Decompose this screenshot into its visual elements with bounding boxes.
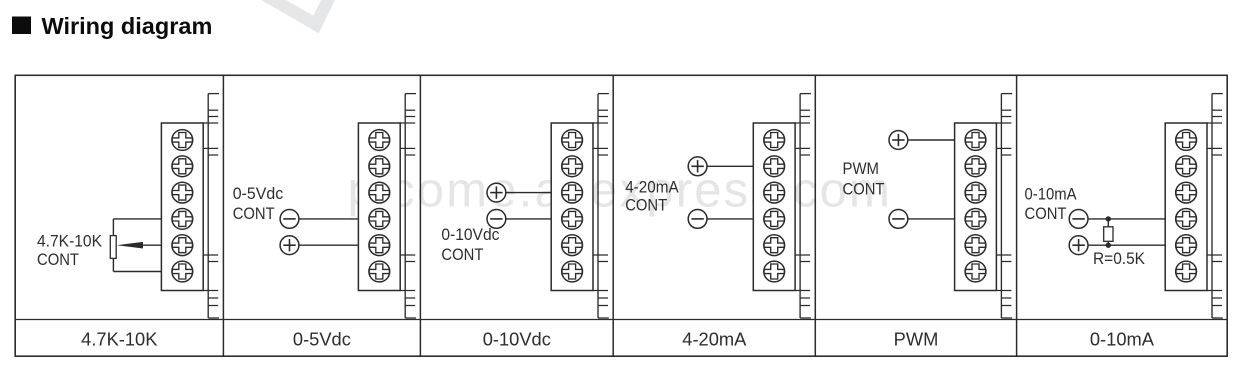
svg-text:0-10Vdc: 0-10Vdc bbox=[441, 225, 499, 244]
screw terminal 3 of block 3 bbox=[562, 182, 583, 203]
input terminal minus (panel 3) bbox=[487, 210, 506, 229]
screw terminal 5 of block 5 bbox=[965, 235, 986, 256]
screw terminal 4 of block 5 bbox=[965, 209, 986, 230]
device side profile 4 (mounting face with fins) bbox=[795, 94, 811, 318]
screw terminal 3 of block 6 bbox=[1176, 182, 1197, 203]
wire: plus to screw 2 bbox=[707, 165, 754, 167]
svg-text:4-20mA: 4-20mA bbox=[682, 329, 747, 350]
screw terminal 5 of block 6 bbox=[1176, 235, 1197, 256]
terminal block 3: 6-screw connector body bbox=[551, 123, 593, 291]
screw terminal 1 of block 6 bbox=[1176, 130, 1197, 151]
terminal block 1: 6-screw connector body bbox=[161, 123, 203, 291]
input terminal plus (panel 2) bbox=[280, 236, 299, 255]
input terminal minus (panel 4) bbox=[688, 210, 707, 229]
screw terminal 4 of block 6 bbox=[1176, 209, 1197, 230]
svg-text:PWM: PWM bbox=[894, 329, 939, 350]
title bullet square bbox=[12, 17, 31, 35]
screw terminal 2 of block 5 bbox=[965, 156, 986, 177]
potentiometer VR1 body 4.7K-10K bbox=[110, 236, 116, 259]
input terminal minus (panel 6) bbox=[1069, 210, 1088, 229]
svg-text:Wiring diagram: Wiring diagram bbox=[42, 13, 213, 39]
wire: wiper to screw 5 bbox=[142, 244, 161, 246]
device side profile 2 (mounting face with fins) bbox=[400, 94, 416, 318]
wire: pot bottom to screw 6 bbox=[113, 271, 161, 273]
svg-text:0-10Vdc: 0-10Vdc bbox=[483, 329, 551, 350]
svg-text:R=0.5K: R=0.5K bbox=[1093, 249, 1146, 268]
screw terminal 4 of block 4 bbox=[764, 209, 785, 230]
wire: plus to screw 1 bbox=[907, 139, 954, 141]
screw terminal 1 of block 4 bbox=[764, 130, 785, 151]
input terminal plus (panel 5) bbox=[889, 131, 908, 150]
wire: pot bottom lead bbox=[112, 258, 114, 271]
terminal block 4: 6-screw connector body bbox=[753, 123, 795, 291]
svg-text:4-20mA: 4-20mA bbox=[625, 177, 679, 196]
svg-text:CONT: CONT bbox=[843, 180, 885, 199]
potentiometer wiper arrow bbox=[117, 242, 143, 249]
screw terminal 6 of block 6 bbox=[1176, 261, 1197, 282]
screw terminal 6 of block 2 bbox=[369, 261, 390, 282]
wire: plus to screw 5 bbox=[299, 244, 359, 246]
screw terminal 2 of block 4 bbox=[764, 156, 785, 177]
resistor R=0.5K body bbox=[1104, 227, 1113, 242]
svg-text:0-5Vdc: 0-5Vdc bbox=[233, 184, 284, 203]
column divider 1 bbox=[222, 75, 224, 356]
input terminal plus (panel 3) bbox=[487, 183, 506, 202]
device side profile 3 (mounting face with fins) bbox=[593, 94, 609, 318]
svg-text:CONT: CONT bbox=[1025, 204, 1067, 223]
wire: minus to screw 4 bbox=[1088, 218, 1166, 220]
screw terminal 5 of block 1 bbox=[172, 235, 193, 256]
wire: pot top to screw 4 bbox=[113, 218, 161, 220]
screw terminal 2 of block 2 bbox=[369, 156, 390, 177]
input terminal plus (panel 6) bbox=[1069, 236, 1088, 255]
screw terminal 4 of block 3 bbox=[562, 209, 583, 230]
wire: plus to screw 3 bbox=[505, 192, 551, 194]
wire: minus to screw 4 bbox=[707, 218, 754, 220]
column divider 3 bbox=[612, 75, 614, 356]
screw terminal 6 of block 4 bbox=[764, 261, 785, 282]
table outer border bbox=[15, 75, 1227, 356]
svg-text:0-10mA: 0-10mA bbox=[1025, 184, 1078, 203]
watermark check-mark fragment (top left) bbox=[260, 0, 331, 25]
svg-text:4.7K-10K: 4.7K-10K bbox=[37, 232, 103, 251]
screw terminal 5 of block 2 bbox=[369, 235, 390, 256]
svg-text:CONT: CONT bbox=[625, 196, 667, 215]
screw terminal 3 of block 2 bbox=[369, 182, 390, 203]
terminal block 5: 6-screw connector body bbox=[955, 123, 997, 291]
screw terminal 5 of block 4 bbox=[764, 235, 785, 256]
input terminal minus (panel 2) bbox=[280, 210, 299, 229]
screw terminal 1 of block 5 bbox=[965, 130, 986, 151]
screw terminal 3 of block 1 bbox=[172, 182, 193, 203]
wire: minus to screw 4 bbox=[907, 218, 954, 220]
screw terminal 6 of block 5 bbox=[965, 261, 986, 282]
wire: plus to screw 5 bbox=[1088, 244, 1166, 246]
wire: resistor bottom lead bbox=[1107, 241, 1109, 245]
input terminal plus (panel 4) bbox=[688, 157, 707, 176]
wire: pot top lead bbox=[112, 219, 114, 236]
column divider 5 bbox=[1016, 75, 1018, 356]
input terminal minus (panel 5) bbox=[889, 210, 908, 229]
svg-text:PWM: PWM bbox=[843, 159, 880, 178]
wire: minus to screw 4 bbox=[299, 218, 359, 220]
screw terminal 6 of block 3 bbox=[562, 261, 583, 282]
screw terminal 2 of block 3 bbox=[562, 156, 583, 177]
screw terminal 3 of block 5 bbox=[965, 182, 986, 203]
device side profile 5 (mounting face with fins) bbox=[996, 94, 1012, 318]
svg-text:4.7K-10K: 4.7K-10K bbox=[81, 329, 157, 350]
device side profile 6 (mounting face with fins) bbox=[1207, 94, 1223, 318]
device side profile 1 (mounting face with fins) bbox=[203, 94, 219, 318]
wire: minus to screw 4 bbox=[505, 218, 551, 220]
wire: resistor top lead bbox=[1107, 219, 1109, 227]
screw terminal 1 of block 3 bbox=[562, 130, 583, 151]
screw terminal 1 of block 2 bbox=[369, 130, 390, 151]
svg-text:CONT: CONT bbox=[441, 245, 483, 264]
svg-text:CONT: CONT bbox=[37, 250, 79, 269]
screw terminal 2 of block 6 bbox=[1176, 156, 1197, 177]
screw terminal 3 of block 4 bbox=[764, 182, 785, 203]
label row separator bbox=[15, 319, 1227, 321]
screw terminal 4 of block 1 bbox=[172, 209, 193, 230]
screw terminal 6 of block 1 bbox=[172, 261, 193, 282]
terminal block 6: 6-screw connector body bbox=[1165, 123, 1207, 291]
screw terminal 2 of block 1 bbox=[172, 156, 193, 177]
column divider 4 bbox=[814, 75, 816, 356]
junction node on plus wire bbox=[1106, 243, 1111, 248]
svg-text:0-5Vdc: 0-5Vdc bbox=[293, 329, 351, 350]
svg-text:CONT: CONT bbox=[233, 204, 275, 223]
junction node on minus wire bbox=[1106, 216, 1111, 221]
screw terminal 5 of block 3 bbox=[562, 235, 583, 256]
screw terminal 1 of block 1 bbox=[172, 130, 193, 151]
svg-text:0-10mA: 0-10mA bbox=[1090, 329, 1155, 350]
column divider 2 bbox=[419, 75, 421, 356]
terminal block 2: 6-screw connector body bbox=[358, 123, 400, 291]
svg-text:plcome.aliexpress.com: plcome.aliexpress.com bbox=[348, 164, 893, 218]
screw terminal 4 of block 2 bbox=[369, 209, 390, 230]
